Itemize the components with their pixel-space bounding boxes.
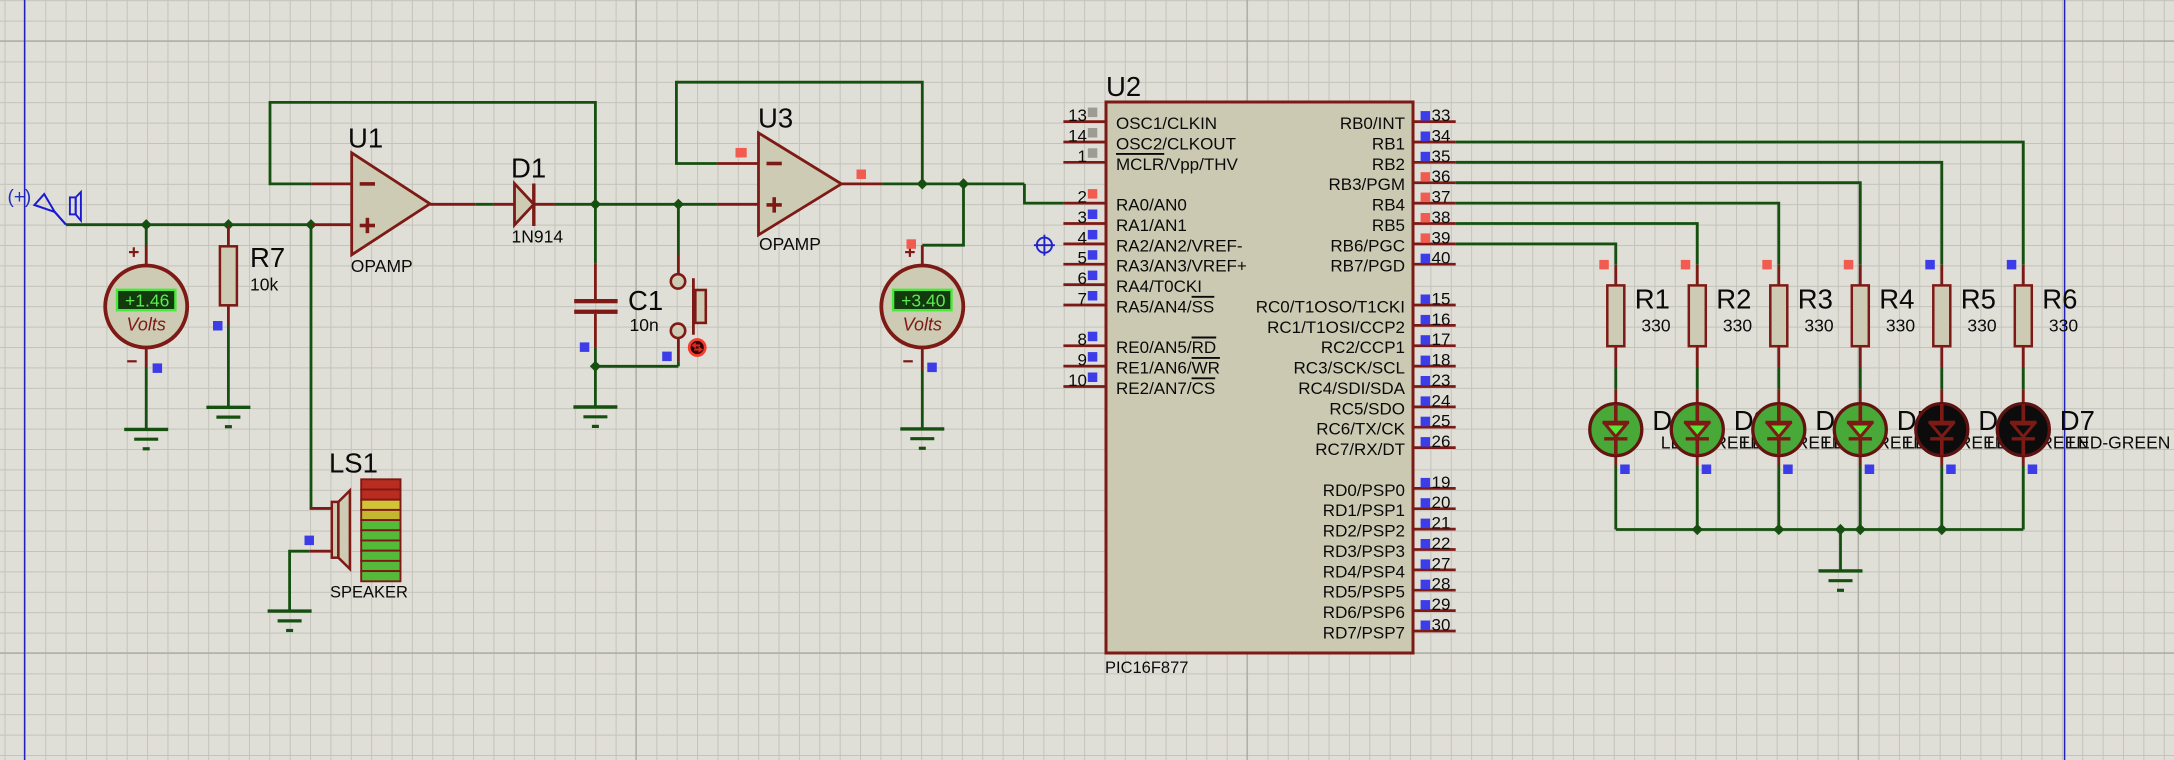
svg-text:R5: R5 (1961, 284, 1996, 315)
svg-text:18: 18 (1432, 351, 1451, 370)
svg-text:OPAMP: OPAMP (351, 256, 413, 276)
svg-text:27: 27 (1432, 554, 1451, 573)
svg-text:D7: D7 (2060, 405, 2095, 436)
svg-text:13: 13 (1068, 106, 1087, 125)
svg-text:14: 14 (1068, 127, 1087, 146)
svg-text:36: 36 (1432, 167, 1451, 186)
svg-text:MCLR/Vpp/THV: MCLR/Vpp/THV (1116, 155, 1239, 174)
svg-text:OSC2/CLKOUT: OSC2/CLKOUT (1116, 135, 1236, 154)
svg-text:RA5/AN4/SS: RA5/AN4/SS (1116, 298, 1214, 317)
svg-text:RD3/PSP3: RD3/PSP3 (1323, 542, 1405, 561)
svg-text:Volts: Volts (903, 315, 942, 335)
svg-text:RC2/CCP1: RC2/CCP1 (1321, 338, 1405, 357)
svg-text:RC5/SDO: RC5/SDO (1329, 399, 1405, 418)
svg-text:17: 17 (1432, 330, 1451, 349)
svg-text:RA3/AN3/VREF+: RA3/AN3/VREF+ (1116, 257, 1247, 276)
svg-text:+3.40: +3.40 (901, 290, 946, 310)
svg-text:330: 330 (1641, 316, 1670, 336)
svg-text:RB5: RB5 (1372, 216, 1405, 235)
svg-text:(+): (+) (8, 187, 32, 208)
svg-text:8: 8 (1078, 330, 1087, 349)
svg-text:PIC16F877: PIC16F877 (1105, 659, 1188, 677)
svg-text:SPEAKER: SPEAKER (330, 584, 408, 602)
svg-text:26: 26 (1432, 432, 1451, 451)
svg-text:34: 34 (1432, 127, 1451, 146)
svg-text:D1: D1 (511, 153, 546, 184)
svg-text:RC0/T1OSO/T1CKI: RC0/T1OSO/T1CKI (1256, 298, 1405, 317)
svg-text:RD2/PSP2: RD2/PSP2 (1323, 522, 1405, 541)
svg-text:+1.46: +1.46 (125, 290, 169, 310)
svg-text:23: 23 (1432, 371, 1451, 390)
svg-text:10: 10 (1068, 371, 1087, 390)
svg-text:RC3/SCK/SCL: RC3/SCK/SCL (1294, 359, 1405, 378)
svg-text:U1: U1 (348, 123, 383, 154)
svg-text:RB3/PGM: RB3/PGM (1328, 175, 1405, 194)
svg-text:10n: 10n (630, 315, 659, 335)
svg-text:1: 1 (1078, 147, 1087, 166)
svg-text:C1: C1 (628, 285, 663, 316)
svg-text:R1: R1 (1635, 284, 1670, 315)
svg-text:RC4/SDI/SDA: RC4/SDI/SDA (1298, 379, 1405, 398)
svg-text:RC7/RX/DT: RC7/RX/DT (1315, 440, 1405, 459)
svg-text:330: 330 (1804, 316, 1833, 336)
svg-text:R7: R7 (250, 242, 285, 273)
svg-text:35: 35 (1432, 147, 1451, 166)
svg-text:38: 38 (1432, 208, 1451, 227)
svg-text:30: 30 (1432, 616, 1451, 635)
svg-text:10k: 10k (250, 275, 278, 295)
svg-text:Volts: Volts (127, 315, 166, 335)
svg-text:RB2: RB2 (1372, 155, 1405, 174)
svg-text:RE1/AN6/WR: RE1/AN6/WR (1116, 359, 1220, 378)
svg-text:39: 39 (1432, 228, 1451, 247)
svg-text:4: 4 (1078, 228, 1087, 247)
svg-text:OPAMP: OPAMP (759, 234, 821, 254)
svg-text:6: 6 (1078, 269, 1087, 288)
svg-text:RA2/AN2/VREF-: RA2/AN2/VREF- (1116, 236, 1243, 255)
svg-text:RD5/PSP5: RD5/PSP5 (1323, 583, 1405, 602)
svg-text:RE2/AN7/CS: RE2/AN7/CS (1116, 379, 1215, 398)
svg-text:RD4/PSP4: RD4/PSP4 (1323, 562, 1405, 581)
svg-text:RD1/PSP1: RD1/PSP1 (1323, 501, 1405, 520)
svg-text:RE0/AN5/RD: RE0/AN5/RD (1116, 338, 1216, 357)
svg-text:29: 29 (1432, 595, 1451, 614)
svg-text:LS1: LS1 (329, 448, 378, 479)
svg-text:RB6/PGC: RB6/PGC (1330, 236, 1405, 255)
svg-text:2: 2 (1078, 188, 1087, 207)
svg-text:24: 24 (1432, 391, 1451, 410)
svg-text:33: 33 (1432, 106, 1451, 125)
svg-text:RA1/AN1: RA1/AN1 (1116, 216, 1187, 235)
svg-text:330: 330 (1967, 316, 1996, 336)
svg-text:7: 7 (1078, 290, 1087, 309)
svg-text:R3: R3 (1798, 284, 1833, 315)
svg-text:20: 20 (1432, 493, 1451, 512)
svg-text:RB7/PGD: RB7/PGD (1330, 257, 1405, 276)
svg-text:RC6/TX/CK: RC6/TX/CK (1316, 420, 1405, 439)
svg-text:330: 330 (1886, 316, 1915, 336)
svg-text:28: 28 (1432, 575, 1451, 594)
svg-text:OSC1/CLKIN: OSC1/CLKIN (1116, 114, 1217, 133)
svg-text:RC1/T1OSI/CCP2: RC1/T1OSI/CCP2 (1267, 318, 1405, 337)
svg-text:U3: U3 (758, 103, 793, 134)
svg-text:RD6/PSP6: RD6/PSP6 (1323, 603, 1405, 622)
svg-text:1N914: 1N914 (512, 227, 564, 247)
svg-text:9: 9 (1078, 351, 1087, 370)
svg-text:330: 330 (2049, 316, 2078, 336)
svg-text:R4: R4 (1879, 284, 1914, 315)
svg-text:RA4/T0CKI: RA4/T0CKI (1116, 277, 1202, 296)
svg-text:RB1: RB1 (1372, 135, 1405, 154)
svg-text:RB0/INT: RB0/INT (1340, 114, 1405, 133)
svg-text:21: 21 (1432, 514, 1451, 533)
svg-text:40: 40 (1432, 249, 1451, 268)
svg-text:25: 25 (1432, 412, 1451, 431)
svg-text:RB4: RB4 (1372, 196, 1405, 215)
svg-text:5: 5 (1078, 249, 1087, 268)
svg-text:RD7/PSP7: RD7/PSP7 (1323, 624, 1405, 643)
svg-text:22: 22 (1432, 534, 1451, 553)
svg-text:R6: R6 (2042, 284, 2077, 315)
svg-text:RA0/AN0: RA0/AN0 (1116, 196, 1187, 215)
svg-text:R2: R2 (1716, 284, 1751, 315)
svg-text:37: 37 (1432, 188, 1451, 207)
svg-text:19: 19 (1432, 473, 1451, 492)
svg-text:15: 15 (1432, 290, 1451, 309)
svg-text:RD0/PSP0: RD0/PSP0 (1323, 481, 1405, 500)
svg-text:U2: U2 (1106, 71, 1141, 102)
svg-text:LED-GREEN: LED-GREEN (2068, 433, 2170, 453)
svg-text:16: 16 (1432, 310, 1451, 329)
svg-text:3: 3 (1078, 208, 1087, 227)
svg-text:330: 330 (1723, 316, 1752, 336)
